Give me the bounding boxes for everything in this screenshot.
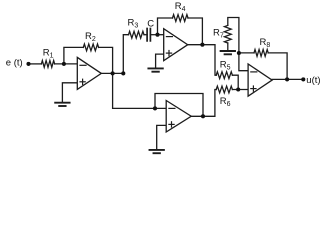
svg-text:C: C — [147, 19, 154, 30]
svg-text:e (t): e (t) — [6, 57, 23, 68]
svg-text:u(t): u(t) — [306, 75, 320, 86]
